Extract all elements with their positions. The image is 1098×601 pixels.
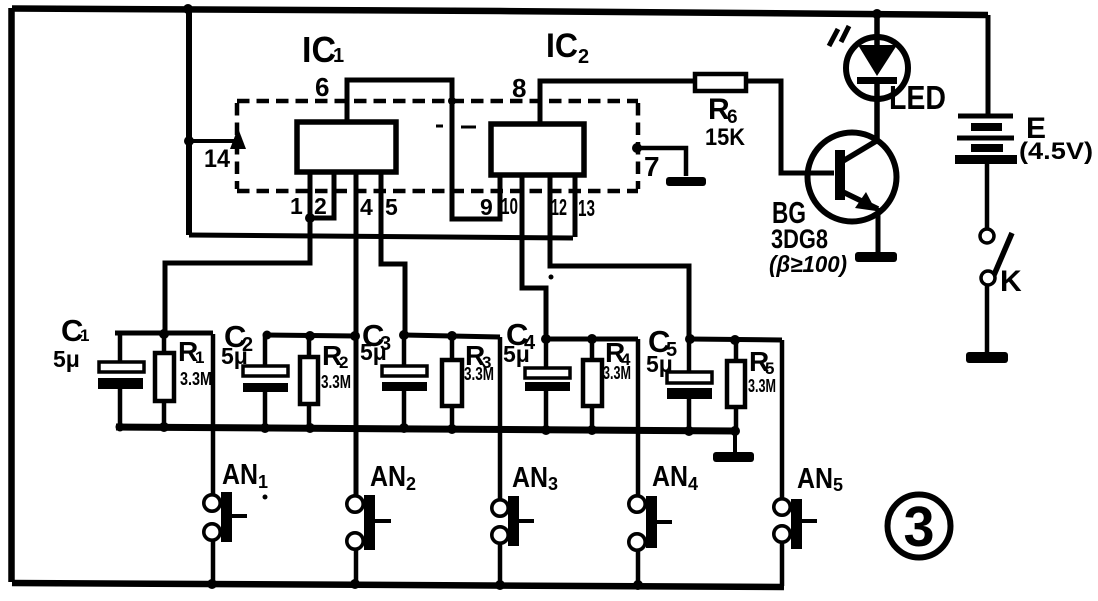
svg-text:2: 2 xyxy=(578,46,589,68)
svg-text:5μ: 5μ xyxy=(503,341,530,367)
svg-text:5μ: 5μ xyxy=(221,343,248,369)
svg-text:5: 5 xyxy=(385,194,398,220)
svg-text:(4.5V): (4.5V) xyxy=(1019,138,1093,165)
svg-text:2: 2 xyxy=(406,474,416,494)
svg-text:(β≥100): (β≥100) xyxy=(769,251,847,277)
svg-text:2: 2 xyxy=(314,193,327,219)
svg-text:1: 1 xyxy=(80,326,89,345)
svg-text:3: 3 xyxy=(548,474,558,494)
svg-text:4: 4 xyxy=(688,474,698,494)
svg-text:1: 1 xyxy=(290,193,303,219)
svg-text:3.3M: 3.3M xyxy=(464,364,494,384)
svg-text:3.3M: 3.3M xyxy=(748,376,776,396)
svg-text:2: 2 xyxy=(339,353,348,372)
svg-text:3.3M: 3.3M xyxy=(603,363,631,383)
svg-text:4: 4 xyxy=(360,194,373,220)
svg-text:AN: AN xyxy=(797,463,833,495)
svg-text:5μ: 5μ xyxy=(646,351,673,377)
svg-text:AN: AN xyxy=(512,462,548,494)
svg-text:8: 8 xyxy=(512,73,526,103)
svg-text:1: 1 xyxy=(195,348,204,367)
svg-text:3: 3 xyxy=(904,495,935,559)
svg-text:AN: AN xyxy=(370,461,406,493)
svg-text:5μ: 5μ xyxy=(53,346,80,372)
svg-text:AN: AN xyxy=(222,459,258,491)
svg-text:5: 5 xyxy=(833,475,843,495)
svg-text:AN: AN xyxy=(652,461,688,493)
svg-text:3DG8: 3DG8 xyxy=(771,224,828,254)
svg-text:10: 10 xyxy=(501,193,518,219)
svg-text:15K: 15K xyxy=(705,124,746,151)
svg-text:6: 6 xyxy=(315,72,329,102)
svg-text:LED: LED xyxy=(889,79,946,116)
svg-text:14: 14 xyxy=(204,145,230,173)
svg-text:IC: IC xyxy=(546,27,578,65)
svg-text:1: 1 xyxy=(258,472,268,492)
svg-text:7: 7 xyxy=(644,151,660,182)
svg-text:9: 9 xyxy=(480,194,493,220)
svg-text:IC: IC xyxy=(302,29,336,70)
svg-text:5μ: 5μ xyxy=(360,339,387,365)
svg-text:13: 13 xyxy=(578,195,595,221)
svg-text:3.3M: 3.3M xyxy=(180,369,212,389)
svg-text:1: 1 xyxy=(333,45,344,67)
svg-text:3.3M: 3.3M xyxy=(321,372,351,392)
svg-text:12: 12 xyxy=(551,194,567,220)
svg-text:K: K xyxy=(1000,265,1022,298)
